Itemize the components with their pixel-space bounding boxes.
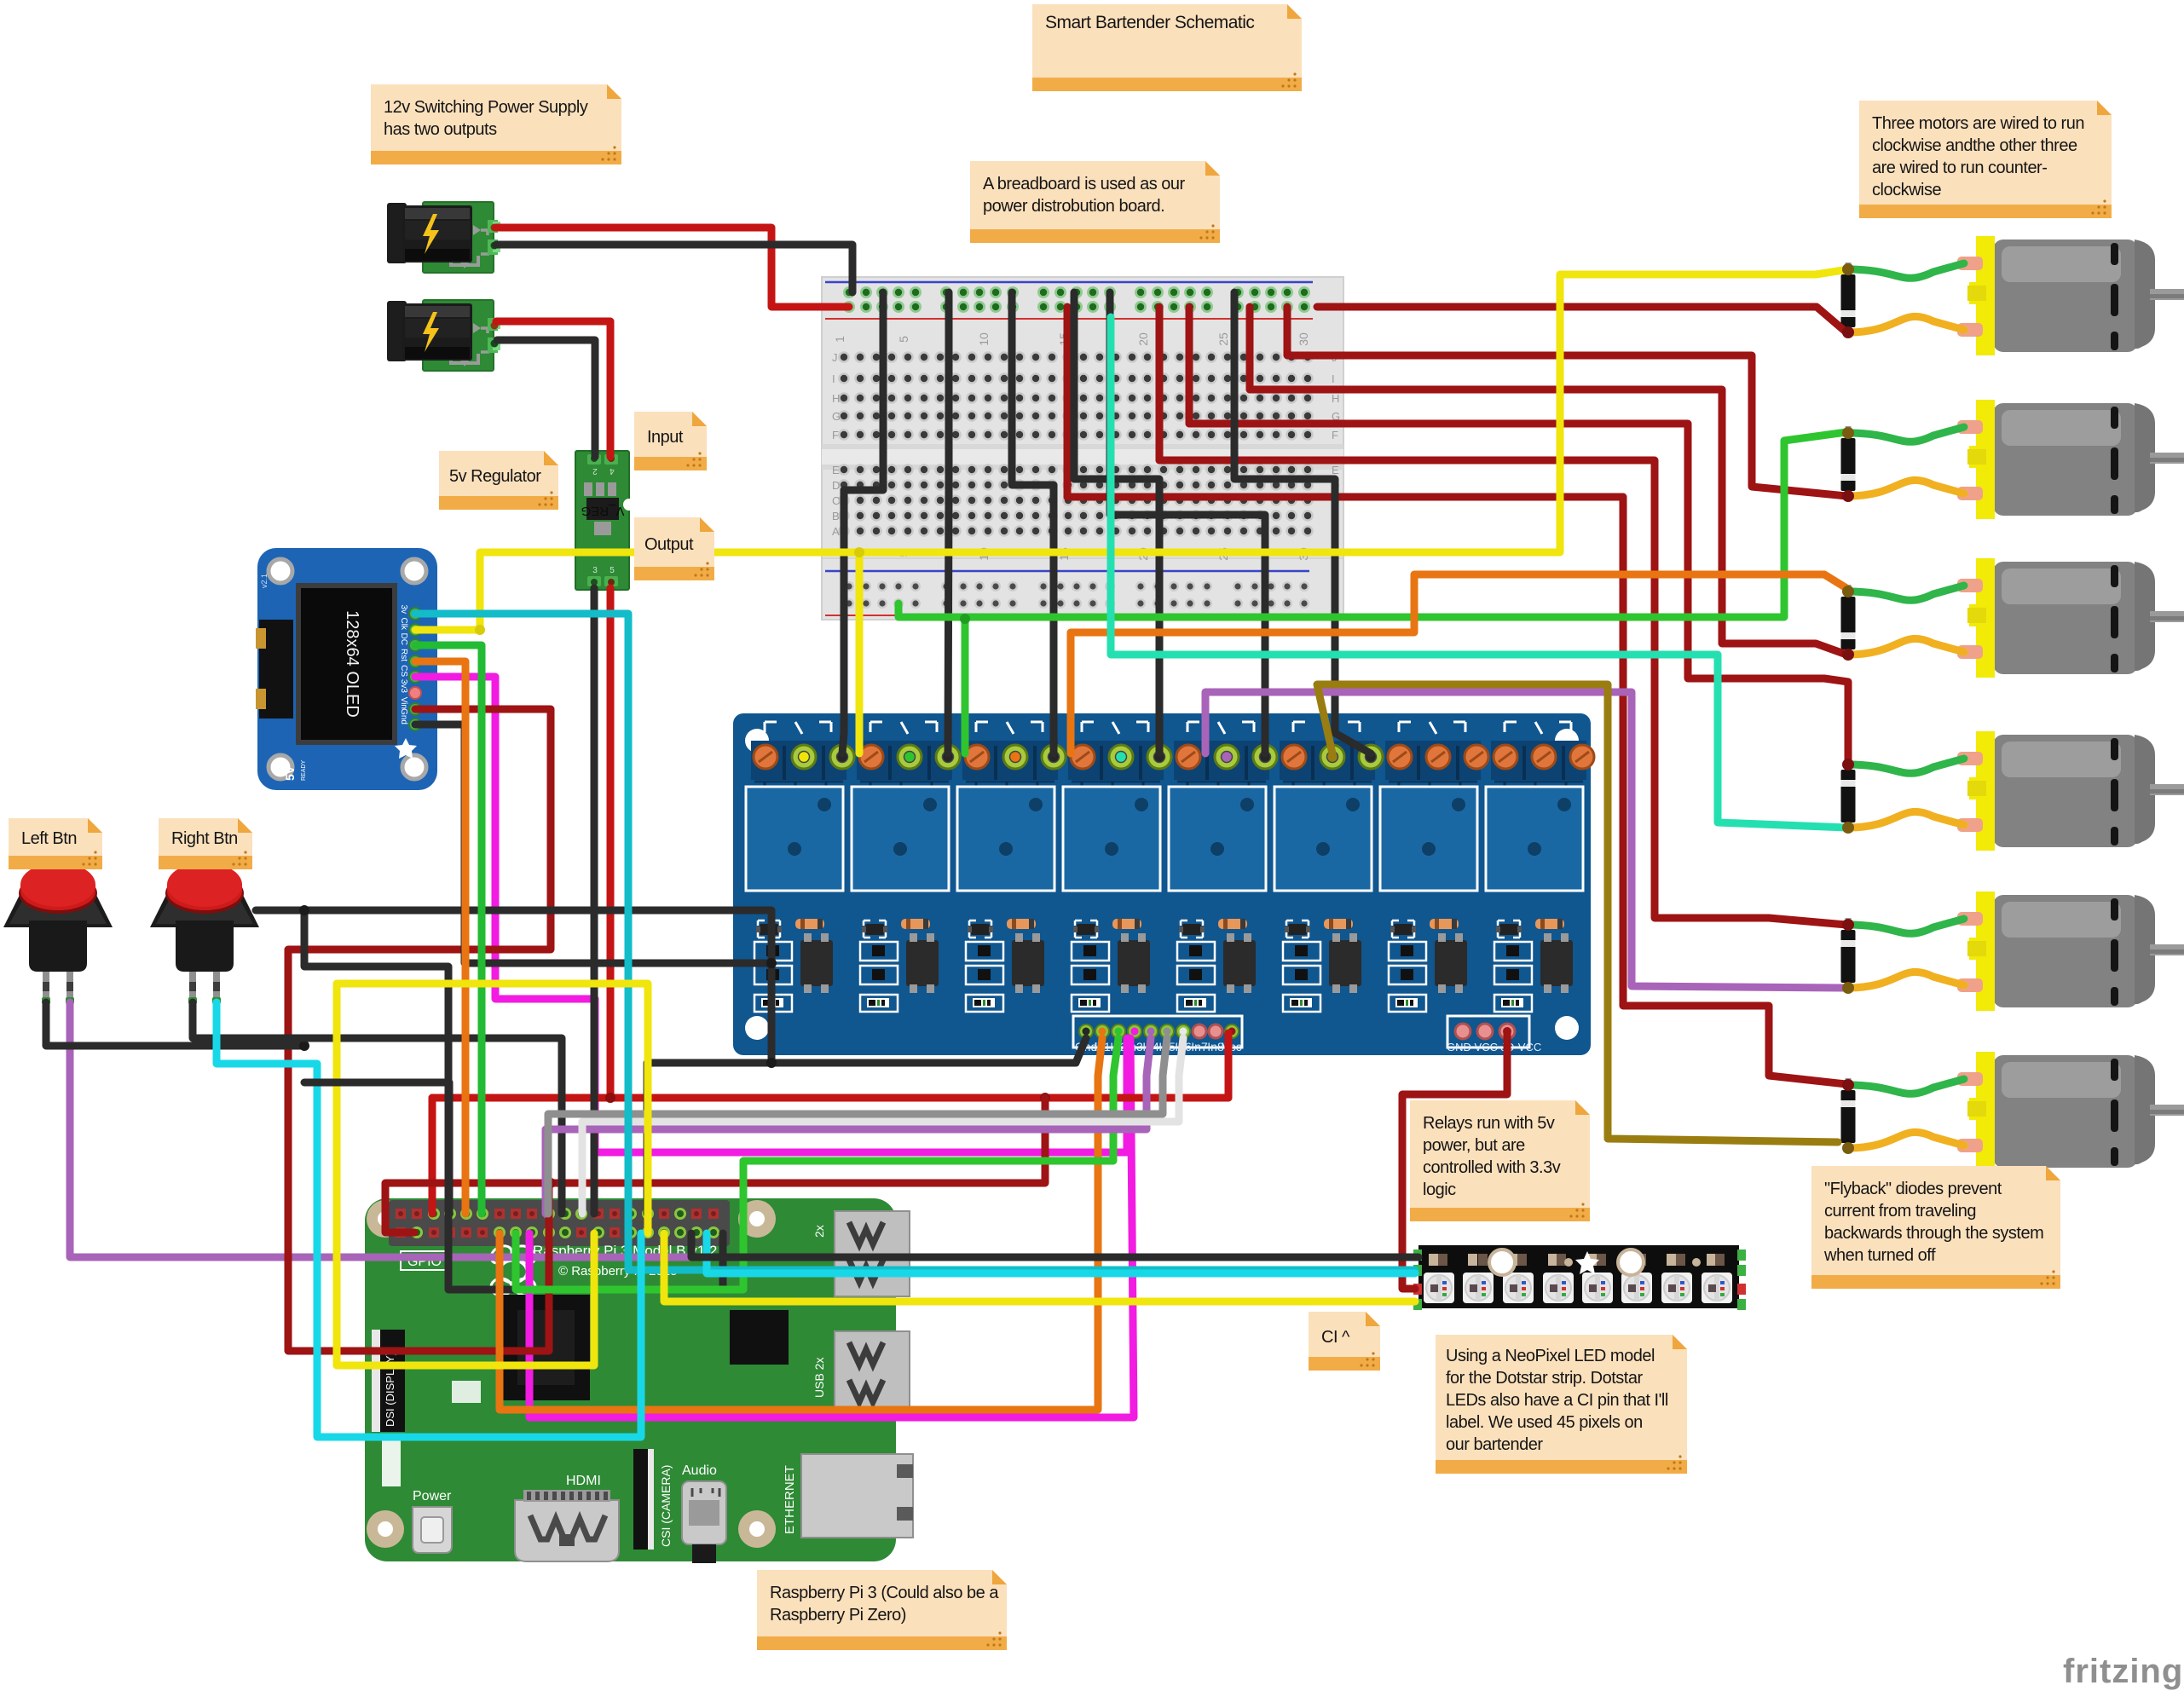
wire purple left button to purple net — [70, 1002, 1027, 1257]
wire yellow OLED Clk to motor M1 via relay ch1 — [415, 270, 1843, 630]
svg-text:G: G — [832, 410, 841, 423]
motor M1 (DC gearmotor) — [1957, 236, 2184, 355]
relay screw terminals — [754, 745, 777, 769]
breadboard top power rail holes — [843, 286, 855, 298]
svg-text:Raspberry Pi Zero): Raspberry Pi Zero) — [770, 1606, 906, 1625]
Pi GPIO header — [389, 1200, 730, 1246]
wire Pi GPIO to NeoPixel GND — [691, 1233, 1418, 1257]
wire yellow relay ch1 tap — [856, 552, 864, 753]
relay channel 6 — [1274, 722, 1375, 1012]
svg-text:for the Dotstar strip. Dotstar: for the Dotstar strip. Dotstar — [1446, 1369, 1643, 1388]
wire OLED 3v to NeoPixel — [415, 614, 1415, 1270]
note CI pin — [1309, 1312, 1380, 1371]
wire 5V regulator output bus — [607, 588, 615, 1098]
note title — [1032, 4, 1302, 91]
svg-text:1: 1 — [833, 336, 846, 343]
svg-text:A breadboard is used as our: A breadboard is used as our — [983, 175, 1186, 193]
wire left button GND — [46, 1002, 304, 1046]
NeoPixel LED strip LED1 — [1413, 1245, 1746, 1310]
svg-text:Gnd: Gnd — [399, 708, 408, 724]
wire motor M4 green lead — [1848, 759, 1964, 773]
relay module K1 (8-channel relay board) — [733, 713, 1594, 1055]
svg-text:power distrobution board.: power distrobution board. — [983, 197, 1164, 216]
svg-text:12v Switching Power Supply: 12v Switching Power Supply — [384, 98, 588, 117]
svg-text:In7: In7 — [1191, 1040, 1208, 1053]
relay channel 2 — [852, 722, 952, 1012]
wire relay Gnd to Pi GPIO — [647, 1038, 1086, 1214]
node motor M1 junctions — [1842, 263, 1854, 275]
svg-text:D: D — [832, 479, 840, 492]
svg-text:Output: Output — [644, 535, 694, 554]
voltage regulator U4 (5v regulator board) — [575, 451, 635, 590]
flyback diode D5 — [1841, 918, 1856, 993]
svg-text:2: 2 — [592, 466, 598, 476]
wire 5V bus to Pi pin2 — [429, 1098, 436, 1214]
wire OLED Gnd to ground bus — [415, 724, 771, 963]
svg-text:CI ^: CI ^ — [1321, 1328, 1350, 1347]
wire olive relay ch6 to motor M6 — [1317, 684, 1838, 1142]
Pi raspberry logo — [488, 1243, 539, 1305]
wire motor M6 green lead — [1848, 1079, 1964, 1094]
svg-text:3v3: 3v3 — [399, 679, 408, 694]
wire 5V to Pi 5V pin — [385, 1098, 1045, 1232]
svg-text:A: A — [832, 525, 840, 538]
wire motor M5 gold lead — [1848, 972, 1964, 988]
wire purple relay ch5 to motor M5 — [1205, 692, 1843, 988]
svg-text:v2.1: v2.1 — [260, 574, 269, 588]
Pi DSI connector — [372, 1330, 405, 1432]
note input — [634, 412, 707, 470]
relay channel 8 — [1486, 722, 1586, 1012]
wire motor M6 gold lead — [1848, 1132, 1964, 1148]
svg-text:10: 10 — [977, 332, 991, 346]
relay power select header (GND VCC JD-VCC) — [1447, 1016, 1529, 1047]
wire orange relay ch3 to motor M3 — [1071, 574, 1846, 753]
Pi CSI connector — [633, 1449, 654, 1550]
note flyback — [1811, 1166, 2060, 1289]
flyback diode D1 — [1841, 263, 1856, 338]
svg-text:USB 2x: USB 2x — [812, 1358, 826, 1398]
svg-text:H: H — [832, 392, 840, 405]
wire ground bus vertical — [304, 910, 723, 1290]
svg-text:HDMI: HDMI — [566, 1474, 601, 1488]
wire cyan relay ch4 to motor M4 — [1111, 317, 1846, 828]
note neopixel — [1436, 1335, 1687, 1474]
svg-text:E: E — [1332, 464, 1339, 476]
breadboard BB1 — [822, 277, 1343, 620]
wire relay In5 to Pi GPIO — [548, 1038, 1167, 1214]
node motor M2 junctions — [1842, 427, 1854, 439]
svg-text:Audio: Audio — [682, 1463, 717, 1478]
svg-text:4: 4 — [610, 466, 615, 476]
wire 12V feed to motor M5 — [1159, 460, 1846, 925]
svg-text:Power: Power — [413, 1489, 452, 1503]
node motor M5 junctions — [1842, 919, 1854, 931]
breadboard bottom power rail holes — [844, 581, 854, 592]
svg-text:power, but are: power, but are — [1423, 1136, 1525, 1155]
breadboard main grid holes — [838, 351, 850, 363]
svg-text:30: 30 — [1297, 332, 1310, 346]
svg-text:Left Btn: Left Btn — [21, 829, 77, 848]
wire 12V rail jumper col14 — [1064, 307, 1072, 497]
svg-text:V_REG: V_REG — [581, 504, 625, 518]
svg-text:DC: DC — [399, 633, 408, 645]
motor M4 (DC gearmotor) — [1957, 731, 2184, 851]
wire OLED Rst to Pi GPIO — [415, 661, 465, 1214]
wire motor M2 gold lead — [1848, 480, 1964, 496]
note relays — [1410, 1100, 1590, 1221]
wire 12V feed to motor M4 — [1189, 424, 1848, 760]
wire relay In4 to Pi GPIO — [546, 1038, 1151, 1214]
svg-text:"Flyback" diodes prevent: "Flyback" diodes prevent — [1824, 1180, 2002, 1198]
svg-text:our bartender: our bartender — [1446, 1435, 1543, 1454]
svg-text:F: F — [832, 429, 839, 442]
wire jack J2 12V+ to regulator input — [496, 321, 610, 457]
svg-text:5v Regulator: 5v Regulator — [449, 467, 541, 486]
svg-text:3: 3 — [592, 566, 598, 575]
wire GND jumper to relay ch4 — [1074, 292, 1159, 753]
OLED pin header pins — [409, 608, 421, 620]
wire 5V bus horizontal — [432, 1094, 1228, 1102]
note raspberry pi — [757, 1570, 1007, 1650]
relay channel 5 — [1169, 722, 1269, 1012]
svg-text:CS: CS — [399, 665, 408, 677]
note motors — [1859, 101, 2112, 218]
svg-text:are wired to run counter-: are wired to run counter- — [1872, 159, 2047, 177]
power jack J2 (12V) — [387, 300, 500, 371]
wire green relay ch2 tap — [962, 619, 969, 753]
wire GND jumper to relay ch1 — [842, 292, 883, 753]
Pi GPIO label — [401, 1251, 448, 1270]
node motor M6 junctions — [1842, 1079, 1854, 1091]
svg-text:Using a NeoPixel LED model: Using a NeoPixel LED model — [1446, 1347, 1655, 1365]
flyback diode D2 — [1841, 426, 1856, 501]
svg-text:fritzing: fritzing — [2063, 1653, 2183, 1690]
Pi Ethernet port — [801, 1454, 913, 1538]
wire motor M1 gold lead — [1848, 316, 1964, 332]
svg-text:logic: logic — [1423, 1180, 1456, 1199]
svg-text:LEDs also have a CI pin that I: LEDs also have a CI pin that I'll — [1446, 1391, 1668, 1410]
power jack J1 (12V) — [387, 202, 500, 273]
svg-text:J: J — [832, 351, 838, 364]
wire right button to Pi GPIO — [193, 1002, 562, 1214]
svg-text:Vin: Vin — [399, 697, 408, 709]
svg-text:clockwise andthe other three: clockwise andthe other three — [1872, 136, 2077, 155]
Raspberry Pi 3 U3 — [365, 1198, 913, 1563]
Pi LAN chip — [730, 1310, 789, 1365]
wire Pi GPIO to NeoPixel data line — [707, 1233, 1415, 1273]
svg-text:backwards through the system: backwards through the system — [1824, 1224, 2043, 1243]
svg-text:Relays run with 5v: Relays run with 5v — [1423, 1114, 1555, 1133]
svg-text:C: C — [832, 494, 840, 507]
wire 12V feed to motor M1 — [1317, 307, 1846, 332]
svg-text:3v: 3v — [399, 604, 408, 614]
svg-text:Rst: Rst — [399, 649, 408, 661]
wire magenta OLED CS to relay In3 — [415, 677, 1127, 1152]
wire jack J2 GND to regulator input — [497, 340, 595, 457]
relay channel 3 — [957, 722, 1058, 1012]
svg-text:CSI (CAMERA): CSI (CAMERA) — [659, 1465, 673, 1547]
flyback diode D6 — [1841, 1078, 1856, 1153]
wire jack J1 12V+ to breadboard rail — [496, 228, 849, 307]
note output — [634, 517, 714, 580]
svg-text:5: 5 — [897, 336, 910, 343]
wire motor M5 green lead — [1848, 919, 1964, 933]
svg-text:H: H — [1332, 392, 1339, 405]
motor M6 (DC gearmotor) — [1957, 1052, 2184, 1171]
relay channel 4 — [1063, 722, 1164, 1012]
svg-text:GND VCC JD-VCC: GND VCC JD-VCC — [1447, 1041, 1541, 1053]
svg-text:when turned off: when turned off — [1823, 1246, 1936, 1265]
wire black top-left Pi pin — [304, 1082, 449, 1214]
svg-text:controlled with 3.3v: controlled with 3.3v — [1423, 1158, 1561, 1177]
wire jack J1 GND to breadboard rail — [496, 245, 852, 292]
svg-text:B: B — [832, 510, 840, 522]
wire 12V rail jumper col26 — [1246, 307, 1254, 390]
wire motor M1 green lead — [1848, 263, 1964, 278]
svg-text:5V: 5V — [283, 765, 297, 781]
svg-text:Input: Input — [647, 428, 684, 447]
note power supply — [371, 84, 621, 164]
wire Pi GPIO to NeoPixel data 1 — [664, 1233, 1415, 1301]
svg-text:128x64 OLED: 128x64 OLED — [343, 610, 361, 718]
Pi SoC chip — [502, 1295, 590, 1400]
wire green bottom rail to motor M2 — [898, 432, 1846, 617]
svg-text:Smart Bartender Schematic: Smart Bartender Schematic — [1045, 13, 1254, 32]
wire motor M3 green lead — [1848, 586, 1964, 600]
svg-text:I: I — [1332, 372, 1335, 385]
motor M3 (DC gearmotor) — [1957, 558, 2184, 678]
pushbutton S2 (Right Btn) — [150, 863, 259, 1004]
svg-text:ETHERNET: ETHERNET — [783, 1465, 797, 1534]
wire relay In2 to Pi GPIO — [516, 1038, 1118, 1290]
svg-text:25: 25 — [1216, 332, 1230, 346]
note left button — [9, 818, 102, 869]
wire relay JD-VCC to NeoPixel 5V — [1402, 1033, 1507, 1289]
motor M5 (DC gearmotor) — [1957, 892, 2184, 1011]
note regulator — [439, 451, 558, 510]
Pi microSD slot — [452, 1381, 481, 1403]
pushbutton S1 (Left Btn) — [3, 863, 113, 1004]
note right button — [159, 818, 252, 869]
svg-text:I: I — [832, 372, 835, 385]
svg-text:Raspberry Pi 3 (Could also be: Raspberry Pi 3 (Could also be a — [770, 1584, 999, 1602]
svg-text:E: E — [832, 464, 840, 476]
svg-text:label. We used 45 pixels on: label. We used 45 pixels on — [1446, 1413, 1643, 1432]
wire right button to NeoPixel — [217, 1002, 641, 1437]
wire GND jumper to relay ch2 — [948, 292, 949, 753]
svg-text:Three motors are wired to run: Three motors are wired to run — [1872, 114, 2084, 133]
relay channel 1 — [746, 722, 846, 1012]
wire 12V rail jumper col22 — [1186, 307, 1193, 424]
wire GND jumper to relay ch3 — [1012, 292, 1054, 753]
relay channel 7 — [1380, 722, 1481, 1012]
wire GND jumper to relay ch6 — [1234, 292, 1371, 753]
wire 12V feed to motor M3 — [1250, 390, 1846, 655]
svg-text:20: 20 — [1136, 332, 1150, 346]
wire 12V feed to motor M6 — [1067, 497, 1846, 1084]
relay control pin header (Gnd In1-In8 Vcc) — [1073, 1016, 1242, 1047]
svg-text:2x: 2x — [812, 1225, 826, 1238]
wire Pi GPIO yellow loop to NeoPixel — [337, 984, 648, 1365]
OLED display U2 (128x64 OLED) — [256, 548, 437, 790]
wire regulator GND to Pi — [591, 588, 598, 1214]
motor M2 (DC gearmotor) — [1957, 400, 2184, 519]
node motor M3 junctions — [1842, 586, 1854, 597]
wire OLED DC to Pi GPIO — [415, 645, 482, 1214]
wire ground bus horizontal — [256, 910, 771, 1063]
svg-text:current from traveling: current from traveling — [1824, 1202, 1976, 1221]
svg-text:clockwise: clockwise — [1872, 181, 1941, 199]
wire 5V bus to relay Vcc — [1225, 1033, 1233, 1098]
wire relay In1 to Pi GPIO — [500, 1038, 1102, 1410]
svg-text:has two outputs: has two outputs — [384, 120, 497, 139]
wire motor M4 gold lead — [1848, 811, 1964, 828]
flyback diode D3 — [1841, 585, 1856, 660]
note breadboard — [970, 161, 1220, 243]
svg-text:Clk: Clk — [399, 618, 408, 631]
wire motor M2 green lead — [1848, 427, 1964, 442]
wire motor M3 gold lead — [1848, 638, 1964, 655]
wire GND jumper to relay ch5 — [1110, 292, 1265, 753]
svg-text:5: 5 — [610, 566, 615, 575]
wire 12V feed to motor M2 — [1287, 307, 1846, 496]
wire magenta relay In3 to Pi GPIO — [529, 1038, 1134, 1417]
Pi USB ports — [812, 1211, 910, 1296]
svg-text:F: F — [1332, 429, 1338, 442]
wire 12V rail jumper col20 — [1156, 307, 1164, 460]
svg-text:Right Btn: Right Btn — [171, 829, 238, 848]
wire relay In6 to Pi GPIO — [582, 1038, 1183, 1214]
node motor M4 junctions — [1842, 759, 1854, 770]
svg-text:READY: READY — [301, 760, 307, 781]
flyback diode D4 — [1841, 758, 1856, 833]
wire OLED Vin to 5V bus — [288, 709, 551, 1351]
